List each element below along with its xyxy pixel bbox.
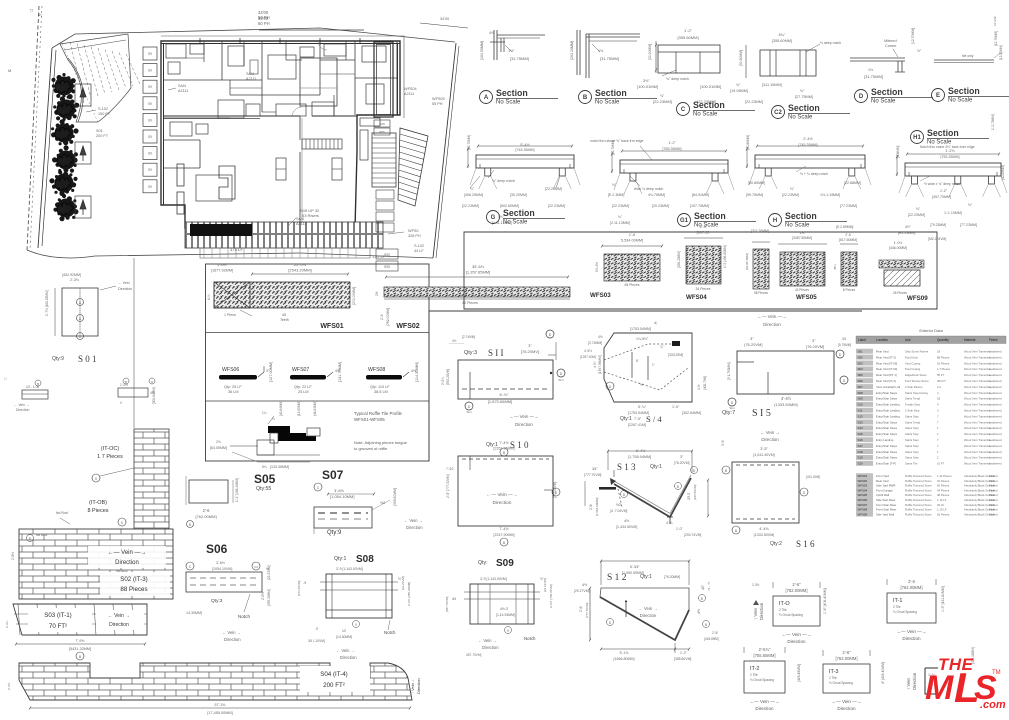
svg-text:[12.70MM]: [12.70MM]: [999, 45, 1003, 60]
svg-text:[22.23MM]: [22.23MM]: [548, 204, 565, 208]
svg-text:Ruffle Textured Stone: Ruffle Textured Stone: [905, 498, 932, 502]
svg-text:14.30MM]: 14.30MM]: [186, 611, 202, 615]
svg-text:Rear Yard: Rear Yard: [876, 350, 889, 354]
svg-text:[63.50MM]: [63.50MM]: [210, 446, 227, 450]
svg-text:[22.23MM]: [22.23MM]: [462, 204, 479, 208]
svg-text:Notch: Notch: [524, 636, 536, 641]
upper-left suite fixtures: [166, 44, 186, 58]
svg-text:[40.00MM]: [40.00MM]: [1001, 165, 1005, 180]
svg-text:5'-1⅜: 5'-1⅜: [620, 651, 629, 655]
svg-text:2'-0½ [768.35VM]: 2'-0½ [768.35VM]: [549, 584, 553, 608]
svg-text:38.5 LM: 38.5 LM: [374, 390, 388, 394]
svg-text:1'-0½: 1'-0½: [120, 383, 128, 387]
svg-text:Stairs Step Facing: Stairs Step Facing: [905, 391, 928, 395]
svg-text:[2.11.13MM]: [2.11.13MM]: [610, 221, 630, 225]
S03 bottom dimension: [16, 643, 145, 645]
svg-text:No Scale: No Scale: [927, 140, 952, 146]
svg-text:Wood Vein Travertine: Wood Vein Travertine: [964, 391, 991, 395]
corner bracket detail near logo: [925, 668, 938, 694]
svg-text:Front Stair Riser: Front Stair Riser: [876, 508, 896, 512]
small detail strip B: [118, 388, 148, 397]
svg-text:[22.23MM]: [22.23MM]: [908, 213, 925, 217]
section H beam drawing: [755, 155, 865, 168]
tile layout IT-2: [744, 661, 785, 693]
svg-text:2 Side Pavers: 2 Side Pavers: [905, 385, 923, 389]
svg-text:[311.15MM]: [311.15MM]: [762, 83, 782, 87]
svg-text:[266.50VM]: [266.50VM]: [693, 484, 697, 500]
svg-text:4⁄4: 4⁄4: [452, 597, 456, 601]
svg-text:[E.2.89MM]: [E.2.89MM]: [836, 225, 853, 229]
svg-text:Wood Vein Travertine: Wood Vein Travertine: [964, 444, 991, 448]
svg-text:8 Pieces: 8 Pieces: [87, 508, 108, 514]
svg-text:[101.50MM]: [101.50MM]: [480, 41, 484, 60]
svg-text:Wood Vein Travertine: Wood Vein Travertine: [964, 367, 991, 371]
svg-text:Entry/Stair Landing: Entry/Stair Landing: [876, 409, 900, 413]
S03 label: [28, 608, 92, 632]
svg-text:Fluffed: Fluffed: [989, 498, 998, 502]
svg-text:B: B: [701, 597, 703, 601]
svg-text:tbd Roof: tbd Roof: [56, 511, 68, 515]
svg-text:26 Pieces: 26 Pieces: [893, 291, 907, 295]
upper middle hall walls: [229, 80, 231, 95]
svg-text:42 Pieces: 42 Pieces: [462, 301, 478, 305]
svg-text:C2: C2: [254, 565, 258, 569]
svg-text:44 LF: 44 LF: [414, 249, 424, 253]
svg-text:2'-4½: 2'-4½: [803, 137, 813, 141]
svg-text:25'-0¾: 25'-0¾: [294, 262, 307, 267]
svg-text:[1,758.94MM]: [1,758.94MM]: [628, 455, 651, 459]
svg-text:Leathered: Leathered: [989, 432, 1002, 436]
svg-text:1'-5 [436.00MM]: 1'-5 [436.00MM]: [723, 245, 727, 268]
svg-text:tbd Roof: tbd Roof: [36, 533, 48, 537]
svg-text:3⁄4 1.10VM]: 3⁄4 1.10VM]: [308, 639, 325, 643]
svg-text:½ + ¾ deep notch: ½ + ¾ deep notch: [800, 172, 828, 176]
svg-text:Section: Section: [788, 103, 820, 113]
svg-text:Leathered: Leathered: [989, 385, 1002, 389]
svg-text:Finish: Finish: [989, 338, 998, 342]
svg-text:2'-6”: 2'-6”: [792, 582, 801, 587]
svg-text:Direction: Direction: [118, 287, 132, 291]
site plan property line (dashed, far left): [27, 6, 39, 250]
svg-text:1'-2.70MM]: 1'-2.70MM]: [991, 114, 995, 130]
svg-text:Wood Vein Travertine: Wood Vein Travertine: [964, 350, 991, 354]
svg-text:[425.45MM]: [425.45MM]: [797, 664, 801, 682]
svg-text:Direction: Direction: [640, 613, 657, 618]
svg-text:Step Stone Pavers: Step Stone Pavers: [905, 350, 929, 354]
svg-text:Entry/Stair Steps: Entry/Stair Steps: [876, 397, 898, 401]
svg-text:S16: S16: [858, 438, 864, 442]
building outer wall: [161, 41, 400, 228]
svg-text:Section: Section: [871, 87, 903, 97]
svg-text:Leathered: Leathered: [989, 426, 1002, 430]
great room side wall: [299, 116, 301, 140]
svg-text:½“: ½“: [640, 383, 644, 387]
svg-text:1'-2”: 1'-2”: [680, 651, 687, 655]
svg-text:1½-1.19MM]: 1½-1.19MM]: [820, 193, 840, 197]
svg-text:Pool Deck: Pool Deck: [905, 355, 918, 359]
svg-text:1'-7½ [400.05MM]: 1'-7½ [400.05MM]: [45, 290, 49, 316]
interior stair with rungs: [372, 133, 396, 187]
svg-text:WFS05: WFS05: [796, 294, 817, 301]
exterior slanted stair: [398, 128, 428, 206]
svg-text:No Scale: No Scale: [948, 98, 973, 104]
svg-text:Direction: Direction: [416, 678, 421, 694]
svg-text:WFS01: WFS01: [320, 323, 343, 330]
svg-text:60 PH: 60 PH: [258, 21, 270, 26]
svg-text:Notch thru stone 4⅛" back from: Notch thru stone 4⅛" back from edge: [920, 145, 975, 149]
svg-text:Direction: Direction: [759, 602, 764, 620]
svg-text:Leathered: Leathered: [989, 355, 1002, 359]
svg-text:[31.75MM]: [31.75MM]: [600, 56, 619, 61]
svg-text:42 Pieces: 42 Pieces: [937, 479, 950, 483]
svg-text:Leathered: Leathered: [989, 450, 1002, 454]
section D label: [855, 90, 868, 103]
svg-text:4'-⅜: 4'-⅜: [666, 521, 673, 525]
svg-text:Ruffle Textured Stone: Ruffle Textured Stone: [905, 493, 932, 497]
svg-text:3'-9 [1,143.00VM]: 3'-9 [1,143.00VM]: [480, 577, 507, 581]
svg-text:←— Vein —→: ←— Vein —→: [832, 699, 862, 704]
svg-text:2'-5: 2'-5: [845, 233, 851, 237]
bath rooms detail mid-plan: [218, 100, 244, 118]
svg-text:Rear Yard [IT-3]: Rear Yard [IT-3]: [876, 355, 896, 359]
svg-text:2½: 2½: [375, 291, 379, 296]
svg-text:[1,041.40VM]: [1,041.40VM]: [753, 453, 774, 457]
section B label: [579, 91, 592, 104]
svg-text:Leathered: Leathered: [989, 444, 1002, 448]
svg-text:[3457.50MM]: [3457.50MM]: [792, 236, 812, 240]
svg-text:Entry/Stair Steps: Entry/Stair Steps: [876, 456, 898, 460]
svg-text:[2543.20MM]: [2543.20MM]: [288, 268, 311, 273]
svg-text:WFS09: WFS09: [907, 295, 928, 302]
kitchen counters right side: [360, 118, 380, 126]
svg-text:to grooved of ruffle: to grooved of ruffle: [354, 446, 388, 451]
svg-text:[22.23MM]: [22.23MM]: [745, 100, 763, 104]
svg-text:S20: S20: [858, 462, 864, 466]
svg-text:G: G: [491, 215, 496, 221]
lower great-room walls: [163, 139, 200, 141]
svg-text:WFS05: WFS05: [858, 493, 868, 497]
svg-text:A2111: A2111: [296, 222, 306, 226]
svg-text:□: □: [30, 8, 33, 14]
svg-text:Direction: Direction: [493, 500, 512, 506]
svg-text:Stairs Tread: Stairs Tread: [905, 397, 921, 401]
svg-text:←— Vein —→: ←— Vein —→: [509, 414, 538, 419]
svg-text:↑ Vein: ↑ Vein: [906, 677, 911, 690]
svg-text:3": 3": [812, 338, 816, 343]
svg-text:Rear Yard [IT-04]: Rear Yard [IT-04]: [876, 367, 897, 371]
svg-text:[431.80M]: [431.80M]: [806, 475, 820, 479]
svg-text:[457.70VM]: [457.70VM]: [445, 596, 449, 612]
svg-text:S9: S9: [148, 85, 152, 89]
svg-text:G1: G1: [680, 218, 689, 224]
svg-text:7'-4½: 7'-4½: [499, 441, 509, 445]
svg-text:[197.75MM]: [197.75MM]: [690, 204, 709, 208]
svg-text:Uphill Wall: Uphill Wall: [876, 493, 889, 497]
svg-text:Direction: Direction: [340, 655, 357, 660]
svg-text:1.7 Pieces: 1.7 Pieces: [937, 367, 951, 371]
svg-text:[19.05MM]: [19.05MM]: [297, 401, 301, 416]
svg-text:Ruffle Textured Stone: Ruffle Textured Stone: [905, 508, 932, 512]
svg-text:No Scale: No Scale: [503, 220, 528, 226]
svg-text:18: 18: [937, 350, 941, 354]
svg-text:WFS02: WFS02: [858, 479, 868, 483]
svg-text:Direction: Direction: [515, 422, 533, 427]
svg-text:Leathered: Leathered: [989, 397, 1002, 401]
svg-text:¾": ¾": [736, 83, 741, 87]
svg-text:53 Risers: 53 Risers: [302, 213, 319, 218]
section H1 beam drawing: [905, 163, 1001, 176]
section A label: [480, 91, 493, 104]
svg-text:S13: S13: [858, 420, 864, 424]
svg-text:[22.23VM]: [22.23VM]: [543, 578, 547, 592]
svg-text:4⁄₁: 4⁄₁: [38, 12, 43, 17]
svg-text:S04: S04: [858, 367, 864, 371]
svg-text:1'-2⅛: 1'-2⅛: [945, 149, 955, 153]
svg-text:3'-9 [1,143.00VM]: 3'-9 [1,143.00VM]: [336, 567, 363, 571]
svg-text:B: B: [189, 523, 191, 527]
svg-text:Pool Coping: Pool Coping: [905, 367, 921, 371]
svg-text:2'-6“ [777.92VM]: 2'-6“ [777.92VM]: [446, 474, 450, 498]
svg-text:50 PH: 50 PH: [258, 15, 270, 20]
svg-text:[77.23MM]: [77.23MM]: [840, 204, 857, 208]
svg-text:←— Vein —→: ←— Vein —→: [486, 492, 517, 498]
svg-text:Side Stair Riser: Side Stair Riser: [876, 498, 895, 502]
svg-text:[355.60MM]: [355.60MM]: [772, 39, 792, 43]
svg-text:⅜ Grout Spacing: ⅜ Grout Spacing: [750, 678, 774, 682]
svg-text:4⁄½: 4⁄½: [624, 519, 629, 523]
svg-text:tbd/deep: tbd/deep: [116, 569, 128, 573]
svg-text:Fluffed: Fluffed: [989, 512, 998, 516]
svg-text:[17,455.00MM]: [17,455.00MM]: [207, 711, 232, 715]
svg-text:Exterior Data: Exterior Data: [919, 328, 943, 333]
svg-text:[400.79M]: [400.79M]: [703, 376, 707, 390]
svg-text:H1: H1: [913, 135, 921, 141]
svg-text:M: M: [8, 68, 11, 73]
svg-text:Entry/Stair [T-P]: Entry/Stair [T-P]: [876, 462, 896, 466]
svg-text:[40.64MM]: [40.64MM]: [279, 401, 283, 416]
svg-text:M: M: [925, 669, 954, 707]
column grid ticks along top wall: [199, 38, 201, 44]
svg-text:Ruffle Textured Stone: Ruffle Textured Stone: [905, 474, 932, 478]
svg-text:[762.00MM]: [762.00MM]: [195, 514, 216, 519]
svg-text:A2111: A2111: [178, 89, 188, 93]
svg-text:[MC.DGVM]: [MC.DGVM]: [928, 237, 946, 241]
svg-text:C2: C2: [774, 110, 782, 116]
svg-text:457.70VM]: 457.70VM]: [466, 653, 482, 657]
svg-text:[9,75MM]: [9,75MM]: [838, 343, 851, 347]
svg-text:Qty: 25 LF: Qty: 25 LF: [224, 385, 242, 389]
svg-text:Section: Section: [785, 211, 817, 221]
svg-text:5'-¾“: 5'-¾“: [638, 405, 647, 409]
upper rooms interior walls: [221, 41, 223, 80]
svg-text:Direction: Direction: [837, 706, 856, 711]
svg-text:← Vein →: ← Vein →: [404, 518, 423, 523]
svg-text:3": 3": [750, 336, 754, 341]
section C label: [677, 103, 690, 116]
svg-text:Fluffed: Fluffed: [989, 508, 998, 512]
svg-text:Qty: 110 LF: Qty: 110 LF: [370, 385, 390, 389]
svg-text:[617.60MM]: [617.60MM]: [839, 238, 857, 242]
svg-text:1'-2": 1'-2": [668, 141, 676, 145]
left edge pilasters in great room: [177, 164, 184, 186]
svg-text:[12.70MM]: [12.70MM]: [911, 28, 915, 44]
svg-text:Material: Material: [964, 338, 976, 342]
svg-text:[1397.00M]: [1397.00M]: [580, 355, 596, 359]
svg-text:WFS06: WFS06: [222, 367, 239, 373]
svg-text:Leathered: Leathered: [989, 456, 1002, 460]
section C detail drawing: [658, 45, 720, 73]
svg-text:[1677.92MM]: [1677.92MM]: [211, 269, 233, 273]
svg-text:WFS06: WFS06: [858, 498, 868, 502]
svg-text:[762.00MM]: [762.00MM]: [785, 588, 807, 593]
svg-text:A2111: A2111: [246, 77, 256, 81]
svg-text:←— Vein —→: ←— Vein —→: [107, 550, 146, 556]
svg-text:Stairs Step: Stairs Step: [905, 456, 919, 460]
svg-text:Wood Vein Travertine: Wood Vein Travertine: [964, 385, 991, 389]
svg-text:Direction: Direction: [109, 622, 129, 628]
svg-text:[1753.54MM]: [1753.54MM]: [630, 327, 651, 331]
svg-text:2'-6½: 2'-6½: [11, 552, 15, 560]
svg-text:2'-0¾: 2'-0¾: [441, 377, 445, 385]
svg-text:H: H: [773, 218, 777, 224]
svg-text:S03 (IT-1): S03 (IT-1): [44, 612, 72, 619]
svg-text:7'-4½: 7'-4½: [499, 527, 509, 531]
svg-text:← Vein →: ← Vein →: [108, 613, 131, 619]
svg-text:WFS04: WFS04: [404, 87, 417, 91]
svg-text:[302.64MM]: [302.64MM]: [152, 387, 156, 404]
S02 vein direction inside wall: [88, 546, 166, 568]
svg-text:Edge/Deck Stone: Edge/Deck Stone: [905, 373, 927, 377]
svg-text:←— Vein —→: ←— Vein —→: [757, 314, 786, 319]
svg-text:[355.60MM]: [355.60MM]: [393, 488, 397, 506]
detail S15 rectangle: [737, 351, 834, 394]
site plan south boundary curb: [27, 250, 300, 258]
svg-text:Qty:1: Qty:1: [650, 464, 662, 470]
svg-text:Wood Vein Travertine: Wood Vein Travertine: [964, 456, 991, 460]
svg-text:C: C: [681, 107, 686, 113]
svg-text:Label: Label: [858, 338, 866, 342]
svg-text:S17: S17: [858, 444, 864, 448]
stair island striped rectangle: [302, 139, 342, 149]
svg-text:2'-6”: 2'-6”: [842, 650, 851, 655]
building mid horizontal wall: [163, 115, 300, 117]
svg-text:[19.05MM]: [19.05MM]: [730, 89, 748, 93]
svg-text:Wood Vein Travertine: Wood Vein Travertine: [964, 420, 991, 424]
svg-text:A2111: A2111: [404, 92, 414, 96]
svg-text:[745.35MM]: [745.35MM]: [799, 143, 818, 147]
svg-text:Direction: Direction: [755, 706, 774, 711]
svg-text:Fluffed: Fluffed: [989, 503, 998, 507]
svg-text:Leathered: Leathered: [989, 391, 1002, 395]
svg-text:No Scale: No Scale: [595, 100, 620, 106]
svg-text:2'-5¾”: 2'-5¾”: [759, 647, 771, 652]
svg-text:2'-6⁄: 2'-6⁄: [589, 504, 593, 510]
svg-text:[745.35MM]: [745.35MM]: [516, 148, 535, 152]
svg-text:¾" deep notch: ¾" deep notch: [492, 179, 515, 183]
svg-text:3⁄4: 3⁄4: [842, 337, 846, 341]
svg-text:S10: S10: [858, 403, 864, 407]
svg-text:WFS0: WFS0: [408, 229, 419, 233]
svg-text:Leathered: Leathered: [989, 414, 1002, 418]
svg-text:Front Yard: Front Yard: [876, 474, 889, 478]
svg-text:[94.05.4MM]: [94.05.4MM]: [745, 253, 749, 270]
svg-text:6¾": 6¾": [779, 33, 786, 37]
svg-text:[5431.32MM]: [5431.32MM]: [69, 647, 91, 651]
svg-text:[762.00MM]: [762.00MM]: [900, 585, 922, 590]
svg-text:Yard Coping: Yard Coping: [905, 361, 921, 365]
driveway hatched wedge: [60, 34, 131, 122]
svg-text:[50.80MM]: [50.80MM]: [746, 135, 750, 150]
svg-text:S9: S9: [148, 118, 152, 122]
svg-text:8 Pieces: 8 Pieces: [843, 288, 856, 292]
svg-text:9: 9: [355, 623, 357, 627]
svg-text:4⁄½: 4⁄½: [582, 583, 587, 587]
svg-text:[457.70MM]: [457.70MM]: [932, 195, 951, 199]
svg-text:Location: Location: [876, 338, 888, 342]
svg-text:1'-2": 1'-2": [940, 189, 948, 193]
svg-text:Direction: Direction: [406, 525, 423, 530]
svg-text:[2247.90MM]: [2247.90MM]: [494, 533, 515, 537]
WFS04 hatched block: [686, 246, 721, 284]
svg-text:[76.20VM]: [76.20VM]: [674, 461, 690, 465]
svg-text:Wood Vein Travertine: Wood Vein Travertine: [964, 462, 991, 466]
section G beam drawing: [476, 155, 574, 168]
detail S16 rectangle: [732, 462, 799, 523]
svg-text:Entry/Stair Steps: Entry/Stair Steps: [876, 432, 898, 436]
svg-text:S11: S11: [858, 409, 863, 413]
svg-text:2'-3⅛: 2'-3⅛: [70, 278, 79, 282]
long leader line from site plan to IT-OC wall: [133, 258, 135, 428]
svg-text:[1,434.50VM]: [1,434.50VM]: [616, 525, 637, 529]
WFS08 bar detail: [366, 375, 402, 380]
svg-text:4½: 4½: [489, 31, 494, 35]
svg-text:Leathered: Leathered: [989, 367, 1002, 371]
svg-text:[1,054.10MM]: [1,054.10MM]: [330, 494, 354, 499]
svg-text:Wood Vein Travertine: Wood Vein Travertine: [964, 409, 991, 413]
svg-text:S06: S06: [858, 379, 864, 383]
svg-text:58 Pieces: 58 Pieces: [754, 291, 768, 295]
svg-text:Rear Yard [IT-4]: Rear Yard [IT-4]: [876, 379, 896, 383]
svg-text:4⁄2”: 4⁄2”: [701, 585, 705, 590]
svg-text:Rear Yard [PT 1]: Rear Yard [PT 1]: [876, 373, 897, 377]
svg-text:Note: Adjoining pieces tongue: Note: Adjoining pieces tongue: [354, 440, 408, 445]
svg-text:Entry/Stair Steps: Entry/Stair Steps: [876, 420, 898, 424]
svg-text:thick ¾ deep notch: thick ¾ deep notch: [634, 187, 663, 191]
S02 label inside wall: [100, 572, 170, 596]
svg-text:S02: S02: [858, 355, 864, 359]
svg-text:Sim: Sim: [466, 410, 472, 414]
svg-text:IT-2: IT-2: [750, 666, 759, 672]
row of six street trees: [55, 77, 74, 96]
small rooms annotations right wing: [376, 249, 398, 259]
svg-text:WFS04: WFS04: [686, 294, 707, 301]
svg-text:½ wide x ¾" deep notch: ½ wide x ¾" deep notch: [924, 182, 960, 186]
svg-text:B: B: [37, 382, 39, 386]
svg-text:S06: S06: [206, 542, 228, 556]
svg-text:[1,14.93MM]: [1,14.93MM]: [496, 613, 515, 617]
tile layout IT-3: [823, 664, 870, 693]
svg-text:¾: ¾: [272, 417, 275, 421]
svg-text:S12: S12: [858, 414, 864, 418]
TheMLS.com watermark logo: [925, 655, 1006, 711]
svg-text:S02 (IT-3): S02 (IT-3): [120, 576, 148, 583]
svg-text:↑ Vein ↓: ↑ Vein ↓: [410, 680, 415, 694]
svg-text:SAN: SAN: [178, 84, 186, 88]
tile layout IT-0: [773, 596, 820, 626]
WFS09 hatched block: [879, 260, 924, 268]
svg-text:S-102: S-102: [98, 107, 108, 111]
svg-text:4-½: 4-½: [697, 384, 701, 390]
